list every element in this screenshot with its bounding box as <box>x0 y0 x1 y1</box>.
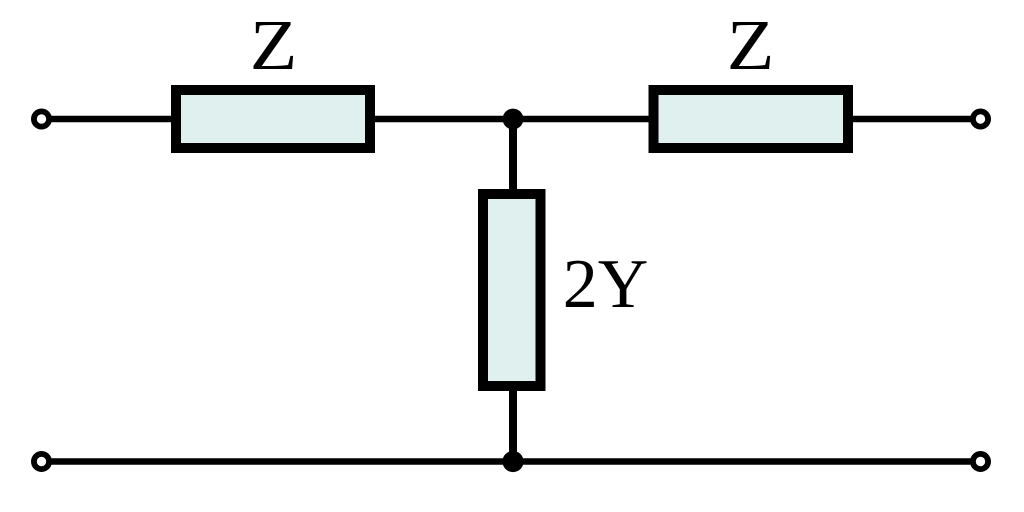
admittance 2Y shunt <box>483 194 541 386</box>
wire top rail <box>42 116 981 123</box>
terminal bottom-right <box>973 454 988 469</box>
wire bottom rail <box>42 458 981 465</box>
impedance Z right <box>654 90 849 148</box>
terminal top-right <box>973 111 988 126</box>
terminal bottom-left <box>34 454 49 469</box>
svg-text:2Y: 2Y <box>563 246 649 323</box>
wire shunt vertical <box>509 119 517 462</box>
svg-text:Z: Z <box>727 6 775 85</box>
svg-text:Z: Z <box>250 6 298 85</box>
junction node top <box>503 109 524 130</box>
junction node bottom <box>502 451 523 472</box>
terminal top-left <box>34 111 49 126</box>
impedance Z left <box>176 90 370 148</box>
